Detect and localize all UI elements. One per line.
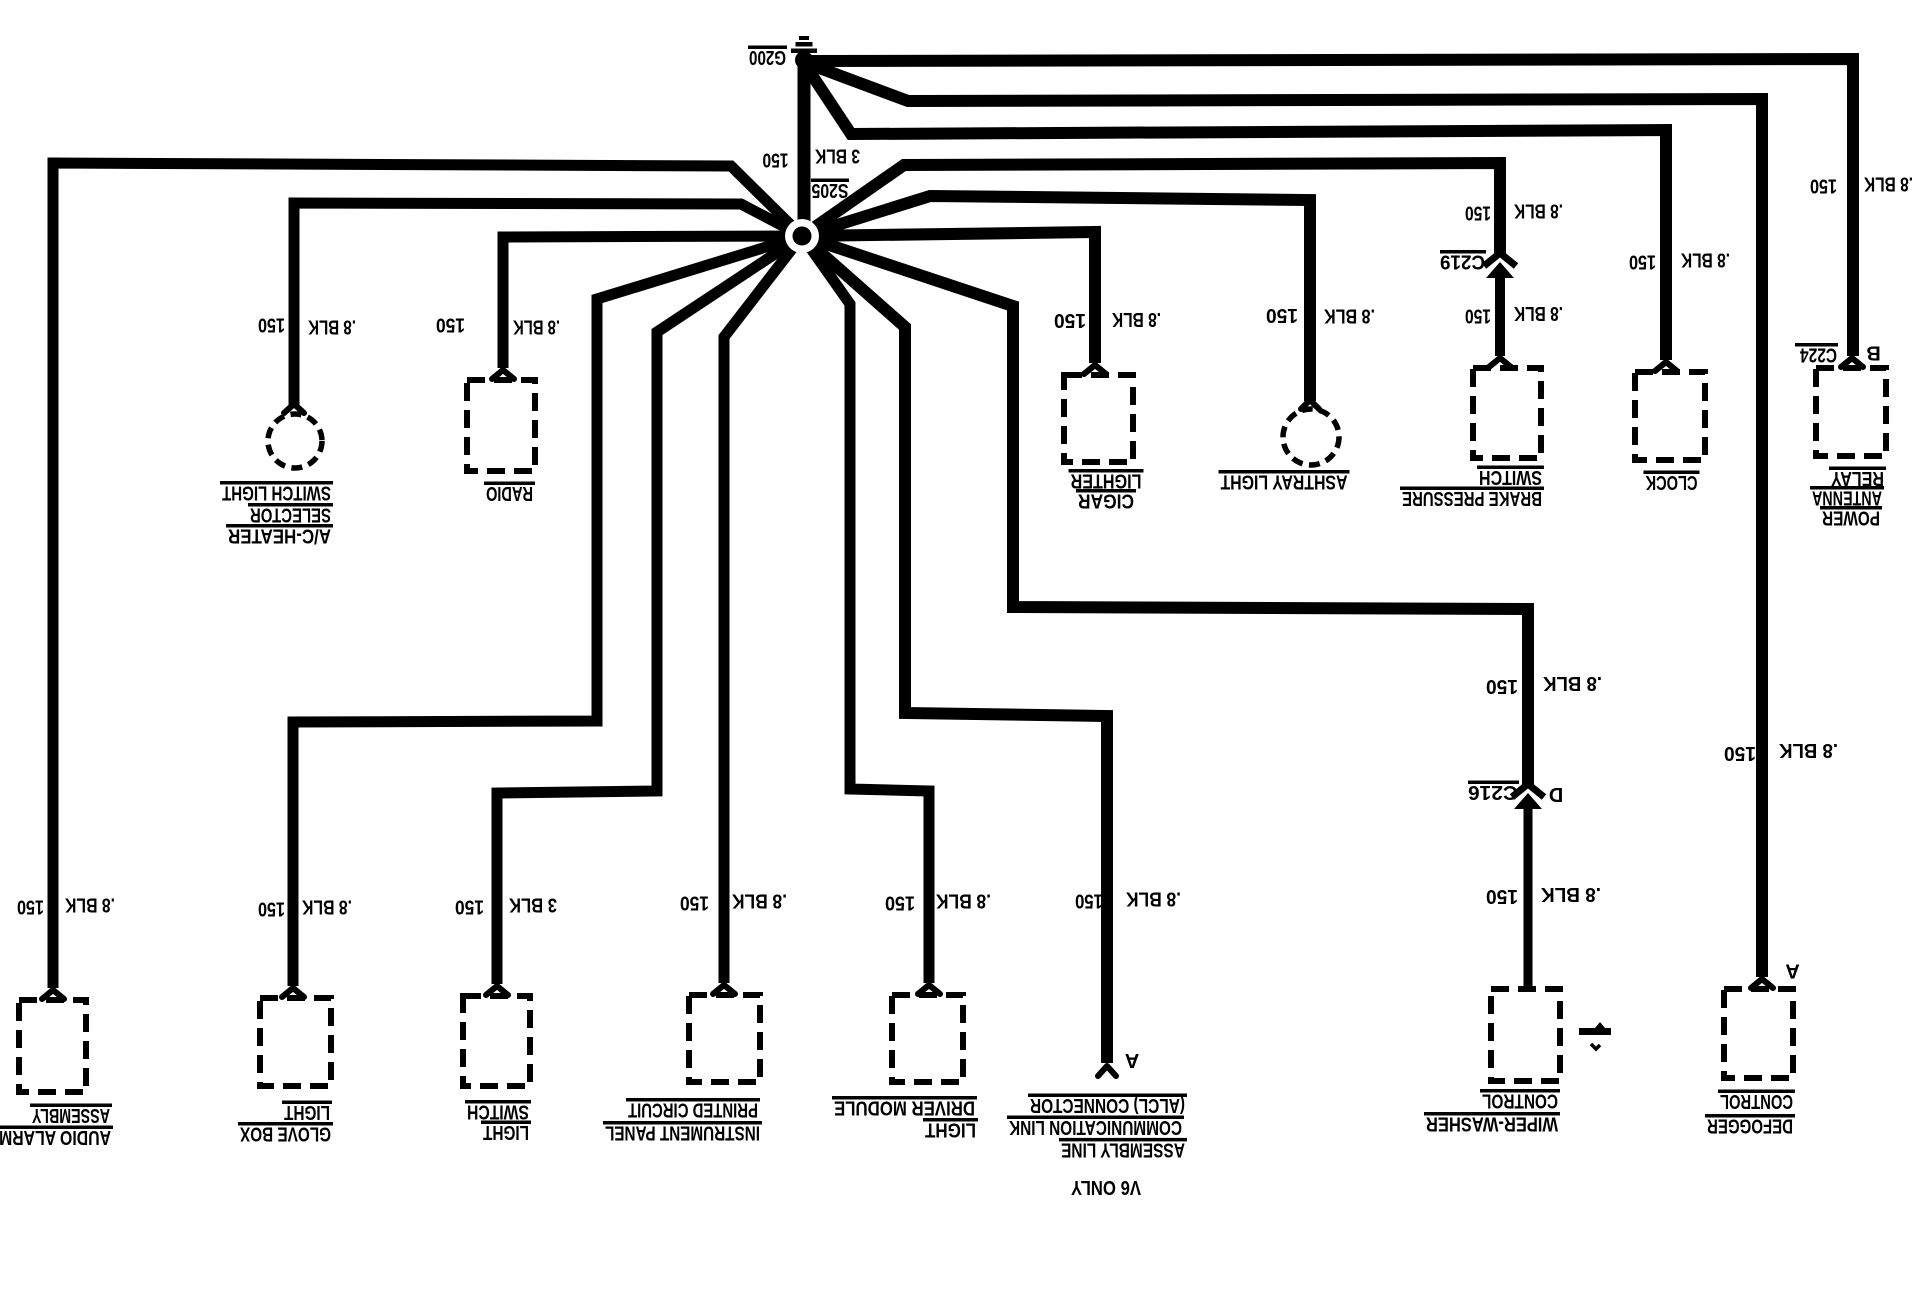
svg-text:.8 BLK: .8 BLK xyxy=(302,896,352,918)
wire brake pressure switch (below C219) xyxy=(1495,276,1505,356)
svg-text:GLOVE BOX: GLOVE BOX xyxy=(239,1123,331,1145)
svg-text:.8 BLK: .8 BLK xyxy=(1126,888,1181,910)
wire to ashtray light xyxy=(802,196,1310,401)
ALCL connector arrow and labels xyxy=(1098,1066,1116,1076)
svg-text:150: 150 xyxy=(1465,202,1491,224)
svg-text:150: 150 xyxy=(436,314,465,336)
cigar lighter box xyxy=(1064,375,1133,462)
svg-text:150: 150 xyxy=(680,892,709,914)
svg-text:.8 BLK: .8 BLK xyxy=(1864,173,1913,195)
svg-text:V6 ONLY: V6 ONLY xyxy=(1070,1176,1141,1198)
svg-text:LIGHT: LIGHT xyxy=(483,1121,529,1143)
ashtray light circle xyxy=(1283,409,1339,465)
svg-text:3 BLK: 3 BLK xyxy=(509,894,557,916)
svg-text:150: 150 xyxy=(1075,890,1103,912)
svg-text:.8 BLK: .8 BLK xyxy=(732,890,787,912)
wire to instrument panel printed circuit xyxy=(724,236,802,983)
svg-text:C224: C224 xyxy=(1799,344,1837,366)
defogger control box xyxy=(1724,989,1793,1078)
svg-text:150: 150 xyxy=(1486,885,1518,907)
svg-text:CLOCK: CLOCK xyxy=(1645,471,1697,493)
svg-text:A: A xyxy=(1785,960,1799,982)
svg-text:150: 150 xyxy=(455,896,484,918)
svg-text:COMMUNICATION LINK: COMMUNICATION LINK xyxy=(1009,1116,1182,1138)
svg-text:150: 150 xyxy=(1266,304,1298,326)
svg-text:.8 BLK: .8 BLK xyxy=(1778,739,1838,761)
svg-text:LIGHT: LIGHT xyxy=(925,1119,976,1141)
a/c-heater selector switch light circle xyxy=(268,414,322,468)
clock box xyxy=(1635,372,1705,460)
power antenna relay box xyxy=(1816,368,1886,456)
svg-text:150: 150 xyxy=(1486,675,1518,697)
svg-text:POWER: POWER xyxy=(1822,507,1880,529)
svg-text:ANTENNA: ANTENNA xyxy=(1812,487,1882,509)
svg-text:AUDIO ALARM: AUDIO ALARM xyxy=(0,1126,111,1148)
svg-text:SWITCH LIGHT: SWITCH LIGHT xyxy=(222,482,331,504)
wire 3 BLK 150 from ground G200 to splice S205 xyxy=(798,60,811,236)
wire to clock xyxy=(806,66,1666,360)
wire to radio xyxy=(503,236,802,368)
svg-text:150: 150 xyxy=(1724,742,1756,764)
svg-text:BRAKE PRESSURE: BRAKE PRESSURE xyxy=(1402,487,1542,509)
svg-text:DRIVER MODULE: DRIVER MODULE xyxy=(834,1097,975,1119)
wire to audio alarm assembly xyxy=(53,163,802,988)
light driver module box xyxy=(892,995,963,1082)
svg-text:G200: G200 xyxy=(749,46,786,68)
glove box light box xyxy=(260,998,331,1086)
svg-text:150: 150 xyxy=(1054,309,1086,331)
svg-text:.8 BLK: .8 BLK xyxy=(65,894,115,916)
wire to a/c-heater selector switch light xyxy=(294,203,802,405)
svg-text:WIPER-WASHER: WIPER-WASHER xyxy=(1426,1113,1558,1135)
svg-text:.8 BLK: .8 BLK xyxy=(1112,308,1161,330)
small arrow symbol beside wiper-washer control xyxy=(1579,1028,1611,1035)
splice S205 xyxy=(785,219,819,253)
svg-text:3 BLK: 3 BLK xyxy=(815,145,860,167)
svg-text:LIGHT: LIGHT xyxy=(284,1101,330,1123)
svg-text:SWITCH: SWITCH xyxy=(467,1101,529,1123)
svg-text:SELECTOR: SELECTOR xyxy=(250,504,331,526)
wire to wiper-washer control (above C216) xyxy=(802,236,1528,785)
svg-text:.8 BLK: .8 BLK xyxy=(1681,249,1730,271)
svg-text:150: 150 xyxy=(1810,175,1837,197)
svg-text:S205: S205 xyxy=(812,179,849,201)
svg-text:150: 150 xyxy=(258,898,285,920)
svg-text:RELAY: RELAY xyxy=(1830,467,1884,489)
svg-text:LIGHTER: LIGHTER xyxy=(1070,470,1141,492)
connector C219 xyxy=(1484,253,1516,266)
svg-text:(ALCL) CONNECTOR: (ALCL) CONNECTOR xyxy=(1030,1094,1185,1116)
svg-text:D: D xyxy=(1549,783,1563,805)
svg-text:CONTROL: CONTROL xyxy=(1482,1090,1558,1112)
audio alarm assembly box xyxy=(19,1000,86,1092)
wire to power antenna relay xyxy=(808,59,1853,356)
svg-text:.8 BLK: .8 BLK xyxy=(513,316,560,338)
svg-text:ASHTRAY LIGHT: ASHTRAY LIGHT xyxy=(1221,471,1348,493)
svg-text:A: A xyxy=(1125,1049,1139,1071)
ground G200 xyxy=(795,51,813,69)
svg-text:CONTROL: CONTROL xyxy=(1720,1090,1793,1112)
svg-text:150: 150 xyxy=(885,892,915,914)
light switch box xyxy=(463,996,530,1086)
wire to light switch xyxy=(497,236,802,984)
svg-text:150: 150 xyxy=(1629,251,1656,273)
svg-text:B: B xyxy=(1866,342,1880,364)
svg-text:CIGAR: CIGAR xyxy=(1078,490,1134,512)
svg-text:150: 150 xyxy=(1465,305,1491,327)
wire to brake pressure switch (above C219) xyxy=(802,163,1500,254)
svg-text:ASSEMBLY LINE: ASSEMBLY LINE xyxy=(1061,1138,1185,1160)
svg-text:C216: C216 xyxy=(1468,781,1518,803)
instrument panel printed circuit box xyxy=(689,995,760,1082)
svg-text:A/C-HEATER: A/C-HEATER xyxy=(228,525,331,547)
wiper-washer control box xyxy=(1491,989,1560,1081)
wire to glove box light xyxy=(293,236,802,986)
connector C216 xyxy=(1512,784,1544,797)
wire to light driver module xyxy=(802,236,929,983)
brake pressure switch box xyxy=(1473,368,1541,458)
svg-text:.8 BLK: .8 BLK xyxy=(308,316,356,338)
wire wiper-washer control (below C216) xyxy=(1524,808,1533,989)
wire to cigar lighter xyxy=(802,232,1095,363)
svg-text:.8 BLK: .8 BLK xyxy=(1514,200,1563,222)
svg-text:150: 150 xyxy=(17,896,44,918)
svg-text:PRINTED CIRCUIT: PRINTED CIRCUIT xyxy=(628,1099,758,1121)
svg-text:.8 BLK: .8 BLK xyxy=(936,890,991,912)
svg-text:.8 BLK: .8 BLK xyxy=(1540,883,1601,905)
svg-text:150: 150 xyxy=(763,149,789,171)
svg-text:.8 BLK: .8 BLK xyxy=(1514,302,1563,324)
svg-text:ASSEMBLY: ASSEMBLY xyxy=(32,1104,110,1126)
svg-text:INSTRUMENT PANEL: INSTRUMENT PANEL xyxy=(605,1122,760,1144)
svg-text:150: 150 xyxy=(258,314,285,336)
svg-text:C219: C219 xyxy=(1440,251,1485,273)
radio box xyxy=(467,380,535,471)
wire to defogger control xyxy=(806,63,1762,977)
svg-text:DEFOGGER: DEFOGGER xyxy=(1707,1115,1793,1137)
svg-text:RADIO: RADIO xyxy=(486,482,533,504)
svg-text:.8 BLK: .8 BLK xyxy=(1542,672,1602,694)
wire to ALCL connector xyxy=(802,236,1107,1063)
svg-text:SWITCH: SWITCH xyxy=(1479,466,1542,488)
svg-text:.8 BLK: .8 BLK xyxy=(1324,305,1375,327)
